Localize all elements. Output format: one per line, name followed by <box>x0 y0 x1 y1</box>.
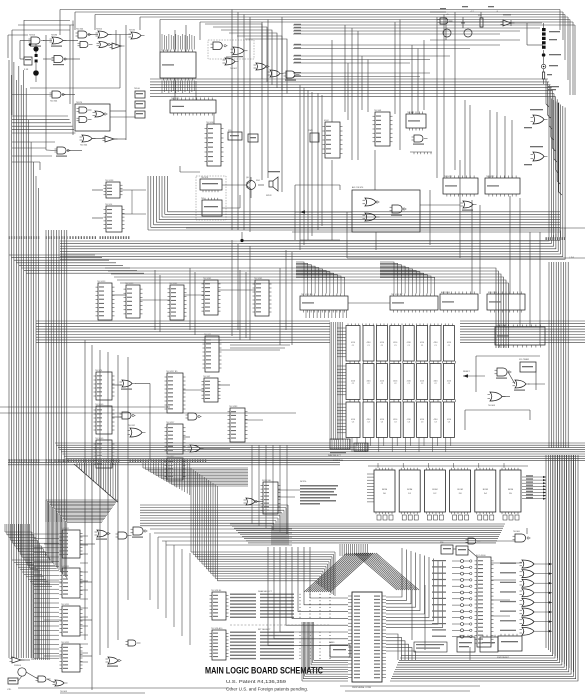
svg-text:RAM SELECT: RAM SELECT <box>328 454 342 457</box>
gate A4 <box>96 29 112 39</box>
gate M5 <box>95 530 111 540</box>
gate E1 video sum <box>438 18 453 24</box>
gate C2 <box>231 47 248 57</box>
svg-text:74LS161: 74LS161 <box>169 283 178 285</box>
svg-text:74LS04: 74LS04 <box>80 145 88 147</box>
IC U4 74LS161 <box>205 122 224 166</box>
IC J4 74LS161 <box>202 278 221 315</box>
svg-text:74LS02: 74LS02 <box>230 68 238 70</box>
node dot y240 <box>240 232 243 242</box>
ROM chip D2 9316 <box>424 468 445 514</box>
svg-text:DMA SELECT: DMA SELECT <box>258 590 273 593</box>
svg-text:Other U.S. and Foreign patents: Other U.S. and Foreign patents pending. <box>226 687 308 692</box>
gate F3 <box>390 205 407 216</box>
IC J6 74LS11 <box>203 334 222 372</box>
bus band left-mid turns <box>272 505 288 545</box>
junction ticks C1 <box>546 237 575 259</box>
svg-text:ROM SEL: ROM SEL <box>262 480 272 482</box>
wire video mid band <box>0 407 296 413</box>
cassette jack K4 <box>480 635 498 652</box>
svg-text:4116: 4116 <box>420 342 424 344</box>
bus pyramid right fan <box>354 553 419 590</box>
gate A5 <box>78 42 93 48</box>
dashed divider <box>230 624 330 626</box>
resistor R28 <box>478 15 483 27</box>
RAM inter-row wires 1 <box>350 361 456 364</box>
peripheral connector J7 <box>348 592 386 689</box>
arrow Q5 <box>463 371 485 378</box>
svg-text:74LS161: 74LS161 <box>203 278 212 280</box>
gate L2 nor <box>244 498 259 505</box>
wire L links <box>112 384 300 502</box>
bus band B2 <box>293 72 430 77</box>
bus top band A <box>60 10 575 35</box>
bus stair S1 bottom verticals <box>46 500 67 578</box>
RAM chip row1 col4 4116 <box>390 326 401 362</box>
svg-text:A11 74LS74: A11 74LS74 <box>352 186 364 189</box>
RAM chip row3 col1 4116 <box>346 402 360 438</box>
bus band C3 <box>36 321 330 343</box>
aux video pads <box>542 28 560 49</box>
RAM row1 top ticks <box>348 324 452 326</box>
flip-flop box U1 74S74 <box>75 102 110 131</box>
IC K2 74LS153 mux <box>390 294 438 313</box>
svg-text:C3: C3 <box>394 421 396 423</box>
wire top-right power net <box>430 12 544 84</box>
resistor R27 box <box>24 57 32 71</box>
svg-text:PWR: PWR <box>308 130 313 132</box>
wire mux feeder corners K2 <box>380 262 435 280</box>
IC U6 cassette2 <box>201 198 222 216</box>
RAM chip row1 col1 4116 <box>346 326 360 362</box>
bus band D <box>55 443 585 461</box>
RAM chip row1 col8 4116 <box>443 326 454 362</box>
ROM top bus <box>368 463 528 468</box>
RAM chip row1 col2 4116 <box>363 326 374 362</box>
rca jack J2 <box>541 64 558 68</box>
svg-text:74LS251: 74LS251 <box>61 566 70 568</box>
svg-text:74LS153: 74LS153 <box>125 283 134 285</box>
gate C4 <box>268 70 284 77</box>
IC L12 <box>94 438 115 468</box>
node dot top-left <box>29 43 32 46</box>
tickrow H6 <box>410 152 432 154</box>
bus right R1 <box>549 97 565 238</box>
bus stair bottom-left verts <box>5 524 30 568</box>
svg-text:B10 7474: B10 7474 <box>488 292 498 294</box>
svg-text:74LS28 B4: 74LS28 B4 <box>211 590 222 592</box>
wire IC column outputs right <box>80 536 88 662</box>
svg-text:74LS257 B5: 74LS257 B5 <box>166 371 178 373</box>
gate M7 nand <box>131 527 148 538</box>
svg-text:NOTE:: NOTE: <box>300 481 307 483</box>
svg-text:74LS161: 74LS161 <box>254 278 263 280</box>
svg-text:ROM: ROM <box>407 489 412 491</box>
small box D1 <box>228 130 242 140</box>
RAM chip row2 col3 4116 <box>376 364 387 400</box>
svg-text:C1: C1 <box>407 345 409 347</box>
gate C6 <box>223 58 239 70</box>
svg-text:74LS28 A10: 74LS28 A10 <box>211 627 223 630</box>
svg-text:C1: C1 <box>421 345 423 347</box>
svg-text:4116: 4116 <box>433 342 437 344</box>
bus band E above connector <box>230 524 505 543</box>
jumper block J16 <box>354 443 368 451</box>
IC I1 74LS138 <box>104 180 123 198</box>
bus A right turns <box>560 10 575 96</box>
wire below connector <box>340 686 480 691</box>
table INT daisy chain rows <box>230 629 331 659</box>
keyboard diode column <box>432 560 472 639</box>
IC K1 74LS153 mux <box>300 294 348 313</box>
svg-text:74LS257: 74LS257 <box>444 176 453 178</box>
wire y345 links <box>219 345 290 350</box>
wire mux down to ram <box>306 310 347 318</box>
svg-text:4116: 4116 <box>380 342 384 344</box>
RAM left bus verticals <box>330 322 343 440</box>
bus stair bottom-left v2 <box>32 532 49 660</box>
bus left L1 labels B <box>9 459 40 462</box>
svg-text:74LS32: 74LS32 <box>407 112 415 114</box>
gate M6 <box>116 532 132 539</box>
bus stair bottom-left second diagonal <box>12 560 52 586</box>
transistor Q3 <box>443 29 451 37</box>
IC L4 <box>202 376 221 402</box>
gate C3 <box>254 63 270 70</box>
video output node <box>542 53 561 57</box>
bus left L2 <box>46 230 67 522</box>
gate A9 <box>52 56 68 66</box>
svg-text:PERIPHERAL CONN: PERIPHERAL CONN <box>352 686 372 689</box>
wire top-left frame <box>8 20 120 115</box>
IC J2 74LS153 <box>124 283 143 318</box>
svg-text:SPKR: SPKR <box>266 195 272 197</box>
svg-text:74166: 74166 <box>134 88 141 90</box>
ROM chip D1 9316 <box>399 468 420 514</box>
svg-text:C2: C2 <box>394 383 396 385</box>
bus band D2 <box>8 460 340 465</box>
RAM chip row3 col2 4116 <box>363 402 374 438</box>
gate G3 <box>461 201 477 211</box>
wire left bus taps to IC column <box>34 534 59 658</box>
svg-text:C2: C2 <box>448 383 450 385</box>
RAM chip row1 col5 4116 <box>403 326 414 362</box>
wire bottom-left links <box>18 544 95 683</box>
svg-text:ROM: ROM <box>382 489 387 491</box>
svg-text:C2: C2 <box>421 383 423 385</box>
gate L14 <box>120 412 136 419</box>
resistor R29 vertical <box>543 72 553 79</box>
svg-text:74LS10: 74LS10 <box>105 204 113 206</box>
buffer gate E3 right edge <box>524 146 548 165</box>
gate M8 <box>10 657 25 663</box>
gate M13 <box>126 640 141 646</box>
gate L15 big or <box>128 425 146 437</box>
IC M2 74LS251 <box>60 566 83 598</box>
svg-text:74LS251: 74LS251 <box>61 604 70 606</box>
bus right R2 <box>549 262 568 448</box>
transistor Q1 <box>246 177 256 193</box>
svg-text:4116: 4116 <box>393 342 397 344</box>
svg-text:MAIN LOGIC BOARD SCHEMATIC: MAIN LOGIC BOARD SCHEMATIC <box>205 666 323 676</box>
IC U2 bottom pin fan <box>162 81 194 94</box>
svg-text:74LS195: 74LS195 <box>161 50 170 52</box>
IC L1 ROM select <box>261 480 281 514</box>
bus band C2 <box>105 268 509 348</box>
bus A left drops <box>60 10 250 233</box>
RAM left pin fan <box>337 328 346 433</box>
gate A2 <box>50 35 67 47</box>
IC L5 <box>228 406 248 442</box>
bus band C1 left fan <box>9 255 144 273</box>
box P5 <box>456 546 468 555</box>
inductor L1 <box>33 63 39 82</box>
svg-text:74S04: 74S04 <box>29 35 36 37</box>
svg-text:555 TIMER: 555 TIMER <box>519 359 530 361</box>
IC M1 74LS251 <box>60 528 83 558</box>
label video output jack <box>548 86 559 90</box>
dashed select box <box>208 40 254 59</box>
bus left L1 labels A <box>9 236 40 239</box>
svg-text:74LS04: 74LS04 <box>50 101 58 103</box>
svg-text:74LS02: 74LS02 <box>203 376 211 378</box>
wire connector left feeds <box>268 547 348 646</box>
gate A1 osc <box>29 35 45 47</box>
IC I2 74LS10 <box>104 204 125 232</box>
bus left L2 labels <box>46 236 68 462</box>
capacitor C12 <box>461 20 465 28</box>
bus bottom-right corner <box>390 455 578 681</box>
bus corner C1 turn <box>60 228 565 260</box>
component column x135 <box>134 88 145 118</box>
svg-text:U.S. Patent #4,136,359: U.S. Patent #4,136,359 <box>226 679 287 684</box>
ROM bottom resistor packs <box>377 515 519 520</box>
wire table feeder verticals <box>150 533 190 645</box>
RAM chip row2 col5 4116 <box>403 364 414 400</box>
gate Q1 cluster <box>495 368 512 379</box>
svg-text:74S32: 74S32 <box>129 30 136 32</box>
bus band C3 right <box>460 321 585 343</box>
gate B1 <box>50 91 66 103</box>
svg-text:74S02: 74S02 <box>96 29 103 31</box>
RAM chip row2 col8 4116 <box>443 364 454 400</box>
svg-text:4/16K RAM: 4/16K RAM <box>333 459 344 462</box>
bus corner big nest drop <box>317 552 335 596</box>
bus left L3 sparse <box>85 340 128 690</box>
svg-text:74LS257: 74LS257 <box>486 176 495 178</box>
transistor Q5 <box>14 665 26 676</box>
svg-text:74LS74: 74LS74 <box>95 370 103 372</box>
capacitor C1 <box>35 54 38 57</box>
wire video loop <box>295 160 585 258</box>
IC P1 keyboard encoder <box>475 554 494 647</box>
svg-text:74LS11: 74LS11 <box>204 334 212 336</box>
diode CR1 <box>501 14 515 26</box>
svg-text:74LS175: 74LS175 <box>171 98 180 100</box>
RAM chip row3 col8 4116 <box>443 402 454 438</box>
svg-text:CASS: CASS <box>329 641 335 644</box>
oscillator Y1 crystal <box>33 44 38 56</box>
wire right-mid verticals <box>472 196 540 345</box>
gate M11 <box>53 680 68 693</box>
cassette label box <box>414 642 447 652</box>
gate C5 <box>284 71 300 81</box>
IC U2 74LS195 <box>160 50 196 81</box>
svg-text:74S86: 74S86 <box>51 35 58 37</box>
gate M12 <box>106 657 122 667</box>
bus corner big nest horizontals1 <box>191 468 248 486</box>
IC L11 <box>94 404 115 434</box>
gate L8 <box>186 413 202 420</box>
buffer gate E2 right edge <box>524 109 548 128</box>
wire bottom-right links <box>412 528 527 660</box>
capacitor C2 <box>35 60 38 63</box>
svg-text:C1: C1 <box>367 345 369 347</box>
svg-text:4116: 4116 <box>407 342 411 344</box>
dashed cassette box <box>196 176 226 220</box>
wire left cluster verticals <box>46 21 126 151</box>
svg-text:ROM: ROM <box>432 489 437 491</box>
svg-text:C3: C3 <box>421 421 423 423</box>
RAM chip row2 col4 4116 <box>390 364 401 400</box>
IC U3 74LS175 <box>170 98 216 116</box>
svg-text:C1: C1 <box>394 345 396 347</box>
wire J links <box>112 268 280 345</box>
gate C1 <box>211 42 228 50</box>
IC J5 74LS161 <box>253 278 272 316</box>
svg-text:ROM: ROM <box>458 489 463 491</box>
gate M10 <box>36 676 51 682</box>
gate B2 <box>80 135 96 147</box>
IC L7 <box>165 456 186 480</box>
RAM chip row1 col7 4116 <box>430 326 441 362</box>
bus B right turns <box>546 79 559 192</box>
bus stair S1 verticals <box>77 463 118 502</box>
bus A to B stair corner <box>205 24 287 94</box>
IC G6 keyboard rom <box>495 325 545 348</box>
gate Q2 cluster <box>513 380 530 391</box>
svg-text:C2: C2 <box>381 383 383 385</box>
ROM chip D3 9316 <box>450 468 471 514</box>
subtitle patent line 2 <box>226 687 308 692</box>
RAM chip row3 col4 4116 <box>390 402 401 438</box>
wire Q links <box>465 356 545 430</box>
RAM chip row1 col6 4116 <box>417 326 428 362</box>
svg-text:74S74: 74S74 <box>76 102 83 104</box>
IC G4 74166 <box>440 291 478 313</box>
wire cluster links <box>46 111 135 151</box>
subtitle patent line 1 <box>226 679 287 684</box>
RAM chip row1 col3 4116 <box>376 326 387 362</box>
RAM chip row2 col1 4116 <box>346 364 360 400</box>
svg-text:C3: C3 <box>381 421 383 423</box>
gate A3 <box>76 29 92 39</box>
gate F1 xor <box>363 198 380 206</box>
svg-text:4116: 4116 <box>447 342 451 344</box>
wire mid-left band y116 <box>12 116 76 133</box>
IC M3 74LS251 <box>60 604 83 636</box>
bus feeder verticals above nest <box>143 463 190 495</box>
svg-text:RESET: RESET <box>463 371 470 373</box>
wire mid verticals x230-290 <box>232 240 292 345</box>
ROM chip D4 9316 <box>475 468 496 514</box>
svg-text:74LS32: 74LS32 <box>128 425 136 427</box>
bus stair S1 diagonal band <box>74 464 118 502</box>
svg-text:C1: C1 <box>352 345 354 347</box>
svg-text:74LS251: 74LS251 <box>61 528 70 530</box>
gate A8 <box>110 43 125 49</box>
IC L6 <box>165 422 186 454</box>
svg-text:74LS251: 74LS251 <box>61 642 70 644</box>
svg-text:74LS109: 74LS109 <box>95 404 104 406</box>
bus band y205 nest horizontals <box>148 212 560 230</box>
bus bottom-right corner left turns up <box>302 622 314 681</box>
label row mid-left <box>70 236 130 239</box>
svg-text:C1: C1 <box>381 345 383 347</box>
wire connector right fans <box>386 548 443 628</box>
bus feeder horizontals into nest <box>143 468 217 486</box>
bus top band B <box>150 79 555 96</box>
gate Q4 <box>488 392 506 407</box>
svg-text:C2: C2 <box>352 383 354 385</box>
power box H2 <box>308 130 319 142</box>
svg-text:74LS74: 74LS74 <box>201 177 209 179</box>
RAM chip row2 col2 4116 <box>363 364 374 400</box>
bus corner big nest horiz2 <box>191 552 335 581</box>
bus y228 long <box>186 228 585 241</box>
IC U2 top pin fan <box>162 34 194 50</box>
arrow video left <box>300 210 305 214</box>
IC G5 74LS74 <box>487 292 525 313</box>
OR gate column <box>500 560 552 635</box>
wire speaker net <box>180 57 251 208</box>
svg-text:KBD ROM: KBD ROM <box>496 325 506 327</box>
RAM chip row3 col3 4116 <box>376 402 387 438</box>
svg-text:74LS257: 74LS257 <box>166 422 175 424</box>
svg-text:74LS138: 74LS138 <box>105 180 114 182</box>
wire osc outputs <box>20 35 131 60</box>
IC H4 <box>406 112 426 131</box>
svg-text:74LS04: 74LS04 <box>76 29 84 31</box>
svg-text:C3: C3 <box>434 421 436 423</box>
small box D2 <box>248 134 258 142</box>
svg-text:A3 74166: A3 74166 <box>441 291 451 294</box>
wire mux fans up <box>304 280 435 294</box>
cassette jack K3 <box>457 635 475 652</box>
svg-text:74LS257: 74LS257 <box>166 456 175 458</box>
wire cpu drops <box>300 12 512 250</box>
wire misc top drops <box>160 17 282 192</box>
box P6 power on reset <box>497 634 522 659</box>
IC H1 video counter <box>323 120 343 158</box>
RAM bottom drops <box>352 438 451 453</box>
wire left cluster to bus <box>12 142 55 170</box>
gate B4 <box>103 136 118 142</box>
ROM chip D5 9316 <box>500 468 521 514</box>
speaker SP1 <box>266 171 280 197</box>
bus corner big nest verticals <box>191 468 217 581</box>
IC L3 <box>165 371 186 413</box>
NOTE text block <box>300 481 338 505</box>
svg-text:74LS109: 74LS109 <box>95 438 104 440</box>
IC J1 74LS153 <box>96 281 115 320</box>
svg-text:ROM: ROM <box>508 489 513 491</box>
bus nested corner x146 verticals <box>148 176 168 230</box>
transistor Q4 <box>464 29 472 37</box>
svg-text:C2: C2 <box>434 383 436 385</box>
IC G2 <box>485 176 520 197</box>
box P4 <box>440 542 453 554</box>
